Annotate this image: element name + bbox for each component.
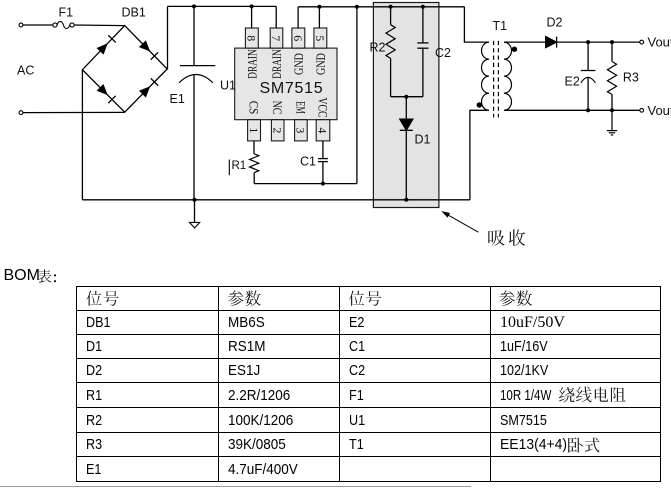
node R3 bottom xyxy=(610,108,614,112)
ground xyxy=(190,200,200,228)
label hdr-canshu2 xyxy=(499,290,532,306)
node E2 top xyxy=(586,40,590,44)
wire bottom rail xyxy=(82,199,470,201)
pin 4 box xyxy=(316,120,330,141)
node E2 bottom xyxy=(586,108,590,112)
wire fuse to bridge top xyxy=(74,24,125,27)
wire gnd rail to T1 primary top xyxy=(464,7,489,42)
node D1 bottom xyxy=(404,198,408,202)
wire secondary bottom rail xyxy=(504,109,640,111)
wire secondary top to D2 xyxy=(504,41,546,43)
IC body U1 xyxy=(235,48,337,120)
capacitor C1 xyxy=(318,141,328,184)
capacitor C2 xyxy=(417,7,428,97)
resistor R1 xyxy=(250,141,259,184)
label hdr-weihao1 xyxy=(86,291,118,306)
pin 6 box xyxy=(292,28,305,48)
pin 3 box xyxy=(295,120,308,141)
node gnd-drop xyxy=(355,5,359,9)
wire AC top to fuse xyxy=(23,24,53,26)
wire drain rail xyxy=(168,5,277,7)
node R3 top xyxy=(610,40,614,44)
pin 2 box xyxy=(271,120,284,141)
wire R1C1 bottom segment xyxy=(254,183,357,185)
Vout+ terminal xyxy=(640,40,644,44)
capacitor E1 xyxy=(179,6,215,199)
wire pin8 up xyxy=(251,6,253,28)
pin 7 box xyxy=(270,28,283,48)
pin 1 box xyxy=(248,120,261,141)
wire bridge right vertex up to drain rail xyxy=(167,6,169,69)
resistor R2 xyxy=(386,7,395,97)
label hdr-weihao2 xyxy=(349,291,381,306)
label BOM colon xyxy=(54,274,56,276)
node gnd-pin5 xyxy=(317,5,321,9)
wire bridge left vertex down to bottom rail xyxy=(81,70,83,200)
diode D1 xyxy=(400,97,413,200)
wire gnd rail xyxy=(298,6,464,8)
wire R2C2 junction segment xyxy=(391,96,423,98)
label hdr-canshu1 xyxy=(228,290,261,306)
node drain-pin8 xyxy=(250,4,254,8)
node gnd-C2 xyxy=(421,5,425,9)
node E1 bottom / ground tap xyxy=(193,198,197,202)
label BOM-biao xyxy=(38,269,52,283)
AC terminal top xyxy=(19,23,23,27)
node C1 bottom xyxy=(321,182,325,186)
node drain-E1 xyxy=(192,4,196,8)
node gnd-R2 xyxy=(389,5,393,9)
wire bottom rail riser to T1 primary bottom xyxy=(470,110,489,200)
snubber box xyxy=(373,3,439,208)
label raoxiandianzu xyxy=(559,387,626,403)
AC terminal bottom xyxy=(19,111,23,115)
wire gnd drop to R1C1 node xyxy=(356,7,358,184)
Vout- terminal xyxy=(640,108,644,112)
capacitor E2 xyxy=(581,42,596,110)
wire D2 to Vout+ xyxy=(557,41,640,43)
earth ground xyxy=(607,110,617,135)
label xishou xyxy=(488,229,525,246)
cursor artifact xyxy=(228,160,230,176)
callout arrow to snubber xyxy=(441,211,478,232)
wire pin6 up xyxy=(297,7,299,28)
wire AC bottom to bridge bottom xyxy=(23,111,125,113)
diode D2 xyxy=(546,37,557,48)
bridge rectifier DB1 xyxy=(82,26,167,113)
fuse F1 xyxy=(53,21,74,28)
pin 8 box xyxy=(245,28,258,48)
resistor R3 xyxy=(607,42,616,110)
label woshi xyxy=(568,438,599,453)
pin 5 box xyxy=(314,28,327,48)
wire pin7 up xyxy=(275,6,277,28)
transformer T1 xyxy=(477,41,518,118)
node D1 top xyxy=(404,95,408,99)
wire pin5 up xyxy=(318,7,320,28)
